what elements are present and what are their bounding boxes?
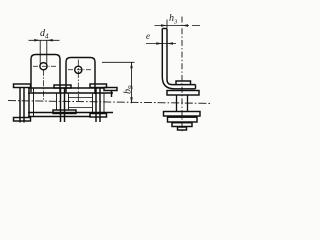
pin 3 bushing [93,93,105,113]
plate K2 hole horizontal centerline [68,69,93,71]
plate stack band 1 [164,112,201,117]
d4 extension lines [40,40,47,63]
pin 3 [96,88,100,123]
bent attachment plate outer contour [162,29,195,89]
pin 2 [61,88,65,122]
pitch centerline [8,101,212,104]
d4 arrows [34,39,53,42]
plate stack band 2 [168,117,198,122]
h3 dimension line [155,25,201,27]
pin 2 bottom cap [53,110,76,114]
bottom stub [178,127,187,130]
plate K1 hole horizontal centerline [33,65,58,67]
chain top plate end view [167,91,199,96]
h3 arrows [161,24,188,27]
plate stack band 3 [172,123,192,127]
attachment plate K2 outline [66,58,95,95]
inner link plate top edges [69,97,93,99]
bent attachment plate top edge [162,28,167,30]
svg-text:e: e [146,31,150,41]
plate K2 hole [75,66,82,73]
chain top edge [28,87,104,89]
b9 arrows [130,62,133,103]
e arrows [156,42,173,45]
pin end view [177,95,188,112]
link plate end [28,88,30,116]
pin end washer [176,81,191,85]
chain end pin cap (partial) [104,88,117,91]
inner link plate bottom edges [69,107,93,109]
b9 top extension line [102,61,135,63]
pin 2 bushing [57,93,69,110]
chain end pin stem [111,91,113,98]
chain vertical centerline [181,17,183,133]
chain plate top edge [28,92,113,94]
plate K1 hole [40,63,47,70]
pin 1 top cap [14,84,31,88]
pin 2 top cap [54,85,71,88]
attachment plate K1 outline [31,55,60,94]
pin 3 bottom cap [90,114,107,118]
pin 1 bushing edge [33,88,35,117]
plate K2 hole vertical centerline [77,60,79,103]
plate K1 hole vertical centerline [43,70,45,102]
b9 dimension line [131,62,133,103]
e dimension line [146,43,176,45]
pin 1 bottom cap [14,118,31,122]
bent attachment plate foot end [195,85,197,89]
h3 extension line [166,20,168,29]
chain plate bottom edge [28,112,113,114]
bent attachment plate inner contour [167,29,196,85]
pin 1 [20,88,24,123]
chain bottom edge [28,116,91,118]
d4 dimension line [29,39,60,41]
pin 3 top cap [90,84,107,88]
